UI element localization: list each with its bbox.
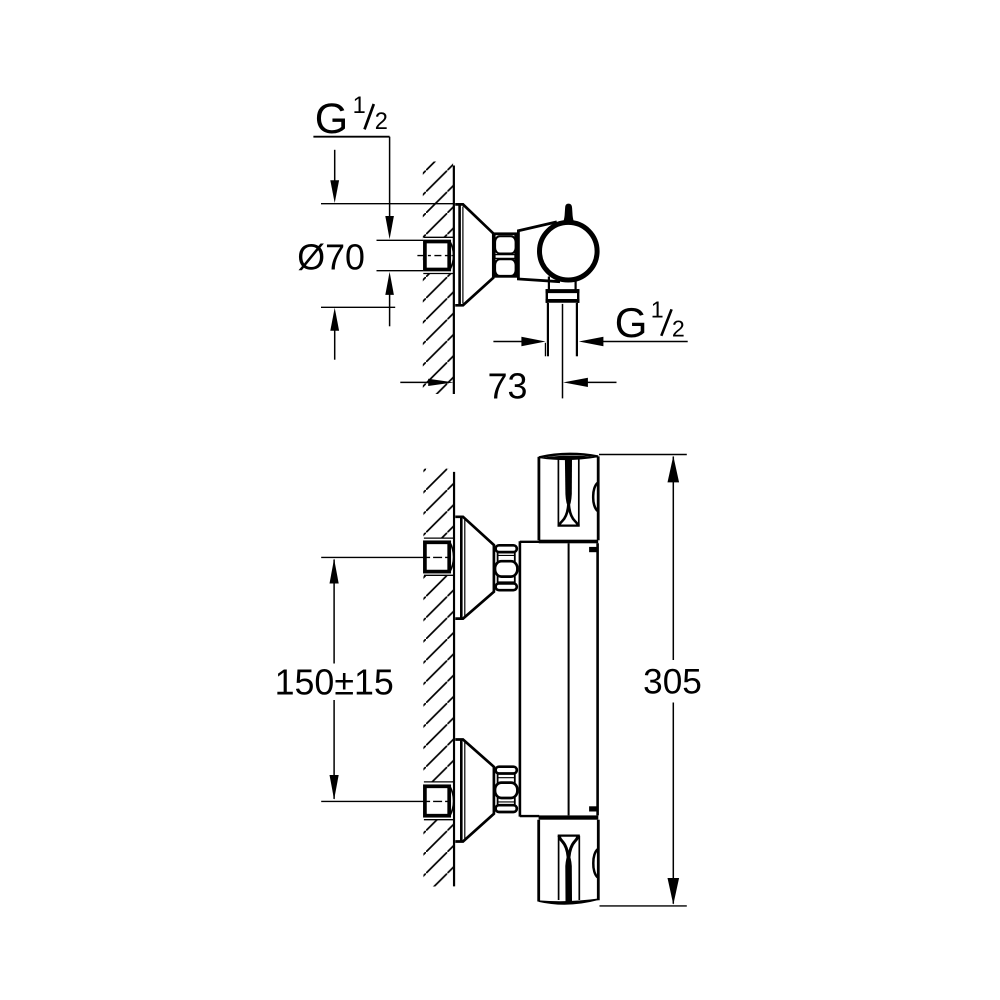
- bottom knob (bottom view): [539, 820, 599, 904]
- arrow down to escutcheon top: [330, 150, 339, 203]
- wall hatch (bottom view): [423, 469, 453, 887]
- knob separation band top: [539, 540, 598, 544]
- svg-text:G: G: [315, 95, 348, 143]
- eco button marker top: [589, 547, 597, 552]
- wall line (top view): [453, 166, 455, 395]
- union nut bottom inlet: [495, 767, 517, 812]
- hose pipe: [545, 303, 577, 356]
- 150 extension line top: [321, 556, 423, 558]
- arrow up to escutcheon bottom: [330, 308, 339, 360]
- union nut (top view): [494, 234, 516, 276]
- pipe centerline: [562, 304, 564, 399]
- side grip crescent top knob: [593, 483, 597, 511]
- wall hole top inlet: [423, 538, 454, 576]
- wall hole bottom inlet: [423, 782, 454, 820]
- leader line G1/2 top: [313, 137, 394, 240]
- dimension 73 left arrow: [400, 379, 453, 386]
- extension line top of escutcheon: [321, 203, 454, 205]
- G1/2 arrow to pipe right: [579, 337, 688, 346]
- dimension 150+-15: [275, 559, 394, 800]
- svg-text:150±15: 150±15: [275, 663, 394, 703]
- svg-text:Ø70: Ø70: [297, 238, 365, 278]
- nipple centerline (top view): [417, 255, 453, 257]
- nipple bolt top inlet: [425, 542, 454, 572]
- hose collar: [546, 289, 580, 303]
- svg-text:305: 305: [643, 663, 702, 702]
- dimension 73 right arrow: [563, 378, 616, 387]
- escutcheon cone (top view): [455, 204, 493, 305]
- thermostat handle circle (top view): [540, 222, 598, 280]
- extension line top of nipple: [377, 239, 424, 241]
- nipple bolt bottom inlet: [425, 786, 454, 816]
- G1/2 arrow to pipe left: [493, 337, 545, 346]
- union nut top inlet: [495, 545, 517, 590]
- mixer body (bottom view): [520, 541, 598, 816]
- svg-text:2: 2: [672, 316, 685, 342]
- escutcheon cone top inlet: [455, 517, 494, 619]
- svg-text:G: G: [615, 299, 648, 346]
- svg-text:2: 2: [375, 109, 388, 135]
- wall hatch (top view): [423, 162, 453, 395]
- dimension 305: [599, 455, 702, 906]
- wall hole (top view): [423, 237, 454, 274]
- eco button marker bottom: [589, 806, 597, 811]
- nipple bolt (top view): [425, 241, 454, 269]
- svg-text:73: 73: [488, 366, 528, 406]
- grip slot top knob: [558, 459, 580, 526]
- knob separation band bottom: [539, 815, 599, 819]
- lever knob on top of circle: [563, 204, 575, 224]
- outlet neck below circle: [549, 277, 576, 290]
- side grip crescent bottom knob: [593, 849, 597, 877]
- label G 1/2 (top): [315, 93, 388, 143]
- arrow up to nipple bottom: [385, 272, 394, 326]
- svg-text:1: 1: [651, 297, 664, 323]
- 150 extension line bottom: [321, 800, 423, 802]
- svg-text:1: 1: [353, 93, 366, 119]
- label G 1/2 (bottom): [615, 297, 685, 347]
- grip slot bottom knob: [558, 836, 580, 902]
- extension line bottom of escutcheon: [321, 306, 395, 308]
- extension line bottom of nipple: [377, 270, 424, 272]
- valve body (top view): [518, 222, 560, 282]
- top knob (bottom view): [539, 454, 598, 540]
- wall line (bottom view): [453, 472, 455, 887]
- escutcheon cone bottom inlet: [455, 740, 494, 842]
